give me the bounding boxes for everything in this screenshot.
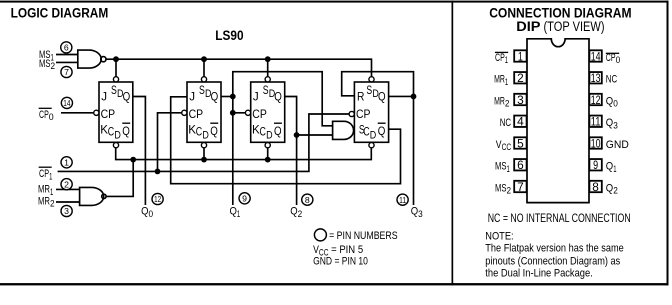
- svg-text:11: 11: [399, 195, 406, 205]
- svg-text:D: D: [266, 130, 273, 142]
- svg-text:2: 2: [517, 71, 524, 85]
- svg-text:= PIN NUMBERS: = PIN NUMBERS: [329, 230, 398, 242]
- svg-text:Q: Q: [123, 90, 131, 103]
- DIP pin numbers: [517, 49, 601, 194]
- svg-text:pinouts (Connection Diagram) a: pinouts (Connection Diagram) as: [485, 255, 620, 267]
- wire FF2 CP riser: [158, 113, 182, 172]
- flip-flop FF4: [349, 77, 389, 148]
- svg-text:12: 12: [591, 93, 601, 107]
- svg-text:14: 14: [63, 98, 70, 108]
- AND gate U3: [333, 121, 354, 139]
- svg-text:2: 2: [64, 179, 69, 189]
- pin box 4: [514, 116, 526, 127]
- svg-text:NC: NC: [500, 117, 511, 129]
- wire CP1 bus: [58, 114, 349, 171]
- panel divider: [452, 1, 454, 286]
- svg-text:Q: Q: [274, 125, 282, 138]
- node FF3 CD / CD bus: [265, 157, 271, 163]
- flip-flop FF3: [245, 77, 284, 148]
- wire FF2 SD drop: [203, 59, 205, 76]
- svg-text:GND = PIN 10: GND = PIN 10: [313, 256, 368, 268]
- pin box 6: [514, 159, 526, 170]
- pin box 14: [589, 50, 601, 61]
- svg-text:7: 7: [64, 67, 69, 77]
- svg-text:1: 1: [518, 49, 523, 63]
- pin box 12: [589, 94, 601, 105]
- svg-text:4: 4: [517, 115, 524, 129]
- wire FF3 Q node: [285, 97, 332, 136]
- wire Q3 feedback to R: [342, 72, 414, 97]
- svg-text:11: 11: [591, 115, 601, 129]
- wire CP0 input: [61, 112, 94, 114]
- svg-text:8: 8: [592, 180, 599, 194]
- NAND gate U1 MS1*MS2: [78, 50, 101, 68]
- svg-text:C: C: [260, 126, 266, 139]
- svg-text:9: 9: [242, 194, 247, 204]
- DIP package body: [527, 39, 589, 203]
- svg-text:6: 6: [517, 158, 524, 172]
- wire CD bus: [116, 148, 372, 160]
- wire Q1 riser to AND input A: [233, 72, 333, 126]
- svg-text:12: 12: [154, 194, 161, 204]
- pin box 2: [514, 72, 526, 83]
- svg-text:7: 7: [517, 180, 524, 194]
- svg-text:The Flatpak version has the sa: The Flatpak version has the same: [485, 243, 624, 255]
- pin 7 circle: [61, 66, 72, 77]
- svg-text:CP: CP: [356, 108, 371, 121]
- pin box 10: [589, 137, 601, 148]
- pin box 3: [514, 94, 526, 105]
- NAND gate U2 MR1*MR2: [80, 187, 104, 205]
- svg-text:3: 3: [517, 93, 524, 107]
- wire SD bus: [106, 59, 372, 76]
- wire MR to CD bus: [106, 160, 133, 197]
- svg-text:D: D: [114, 130, 121, 142]
- wire Q1 drop: [232, 113, 234, 205]
- svg-text:5: 5: [517, 136, 524, 150]
- label CP1bar: [39, 167, 53, 181]
- output Q3: [397, 194, 423, 219]
- svg-text:D: D: [202, 130, 209, 142]
- svg-text:CP: CP: [189, 108, 204, 121]
- wire Q3 drop: [413, 96, 415, 205]
- pin 6 circle: [61, 42, 72, 53]
- node FF3 Q / AND: [294, 132, 300, 138]
- svg-text:14: 14: [591, 49, 601, 63]
- pin 3 circle: [61, 205, 72, 216]
- junction dots: [113, 56, 416, 174]
- wire Q1 to FF3 CP: [233, 97, 245, 113]
- svg-text:CP: CP: [101, 108, 116, 121]
- overbar pin14 CP0: [606, 52, 619, 54]
- svg-text:Q: Q: [122, 125, 130, 138]
- legend pin numbers circle: [314, 229, 397, 242]
- pin 1 circle: [61, 157, 72, 168]
- svg-text:J: J: [189, 90, 195, 103]
- pin box 1: [514, 50, 526, 61]
- node FF4 Q: [411, 94, 417, 100]
- svg-text:J: J: [253, 90, 259, 103]
- svg-text:C: C: [363, 126, 369, 139]
- svg-text:6: 6: [64, 43, 69, 53]
- node CP1 / FF2 CP: [155, 169, 161, 175]
- wire FF4 Qbar to FF2 J feedback: [171, 97, 401, 184]
- svg-text:LOGIC DIAGRAM: LOGIC DIAGRAM: [11, 6, 109, 21]
- svg-text:C: C: [196, 126, 202, 139]
- svg-text:3: 3: [64, 206, 69, 216]
- wire FF4 Q node: [389, 95, 414, 97]
- node MS bus / FF2 SD: [201, 56, 207, 62]
- svg-text:13: 13: [591, 71, 601, 85]
- svg-text:Q: Q: [211, 90, 219, 103]
- pin 14 circle: [61, 97, 72, 108]
- svg-text:the Dual In-Line Package.: the Dual In-Line Package.: [485, 268, 593, 280]
- pin 2 circle: [61, 179, 72, 190]
- output Q1: [230, 193, 251, 219]
- node MS bus / FF1 SD: [113, 56, 119, 62]
- wire FF3 CD stub: [267, 148, 269, 160]
- svg-text:8: 8: [305, 195, 310, 205]
- pin box 7: [514, 181, 526, 192]
- DIP pin boxes: [514, 50, 602, 192]
- svg-text:Q: Q: [210, 125, 218, 138]
- svg-text:NOTE:: NOTE:: [485, 231, 513, 243]
- svg-text:10: 10: [591, 136, 601, 150]
- wire MS1 input: [56, 54, 78, 56]
- overbar pin1 CP1: [495, 51, 508, 53]
- wire MR1 input: [56, 188, 80, 190]
- output Q0: [141, 193, 163, 218]
- svg-text:R: R: [357, 90, 364, 103]
- flip-flop FF2: [182, 77, 221, 148]
- wire FF2 Q node: [221, 96, 233, 98]
- svg-text:C: C: [108, 126, 114, 139]
- svg-text:(TOP VIEW): (TOP VIEW): [544, 19, 605, 34]
- pin box 13: [589, 72, 601, 83]
- node MS bus / FF3 SD: [265, 56, 271, 62]
- svg-text:LS90: LS90: [215, 28, 243, 43]
- pin box 11: [589, 116, 601, 127]
- svg-text:Q: Q: [378, 125, 386, 138]
- output Q2: [290, 194, 313, 219]
- svg-text:NC = NO INTERNAL CONNECTION: NC = NO INTERNAL CONNECTION: [488, 213, 631, 225]
- wire FF3 SD drop: [267, 59, 269, 76]
- svg-text:Q: Q: [378, 90, 386, 103]
- label CP0bar: [39, 108, 54, 122]
- svg-text:9: 9: [593, 158, 598, 172]
- pin box 9: [589, 159, 601, 170]
- node MR / CD bus: [130, 157, 136, 163]
- wire MR2 input: [56, 201, 80, 203]
- node FF2 Q: [230, 94, 236, 100]
- wire FF1 SD drop: [115, 59, 117, 76]
- DIP right labels: [606, 52, 629, 196]
- frame right border: [667, 1, 669, 286]
- svg-text:GND: GND: [606, 139, 629, 151]
- frame bottom border: [0, 283, 669, 285]
- frame top border: [0, 1, 669, 3]
- svg-text:1: 1: [64, 158, 69, 168]
- wire MS2 input: [56, 61, 78, 63]
- svg-text:J: J: [101, 90, 107, 103]
- svg-text:DIP: DIP: [516, 19, 540, 34]
- svg-text:D: D: [370, 130, 377, 142]
- wire FF2 CD stub: [203, 148, 205, 160]
- pin box 5: [514, 137, 526, 148]
- svg-text:NC: NC: [606, 74, 617, 86]
- wire FF1 Q to Q0: [133, 97, 146, 206]
- flip-flop FF1: [94, 77, 133, 148]
- DIP left labels: [494, 52, 511, 196]
- wire Q2 drop: [296, 135, 298, 205]
- svg-text:CP: CP: [252, 108, 267, 121]
- pin box 8: [589, 181, 601, 192]
- node FF3 CP: [230, 110, 236, 116]
- svg-text:Q: Q: [274, 90, 282, 103]
- node FF2 CD / CD bus: [201, 157, 207, 163]
